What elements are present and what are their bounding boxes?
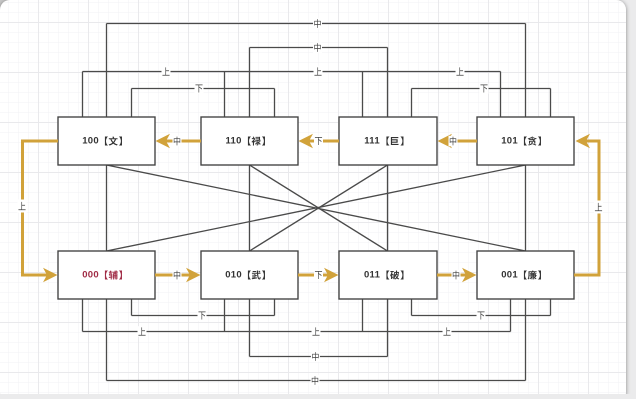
label zhong on bottom outer wire (311, 375, 320, 386)
wire stub top x=362.5 (362, 72, 364, 118)
gold wire left loop 100-to-000 (23, 141, 59, 275)
wire top-right xia horizontal y=88 (412, 88, 551, 90)
wire stub top x=224.5 (224, 72, 226, 118)
label shang on bottom wire (right) (443, 326, 452, 337)
label zhong on gold 011-001 (452, 270, 461, 281)
svg-text:101: 101 (501, 136, 518, 147)
svg-text:011: 011 (364, 270, 381, 281)
svg-text:110: 110 (225, 136, 241, 147)
label shang on top wire (left) (162, 66, 171, 77)
wire bottom inner horizontal (zhong) y=356.2 (250, 356, 388, 358)
wire vertical col3 center x=388 (387, 48, 389, 357)
node 000 辅 box (58, 251, 155, 299)
label zhong on gold 000-010 (173, 270, 182, 281)
label zhong on top outer wire (313, 18, 322, 29)
wire top-left xia horizontal y=88 (132, 88, 275, 90)
node 001 廉 box (477, 251, 574, 299)
wire stub top x=274.5 (274, 89, 276, 118)
gold wire 011-to-001 (437, 274, 467, 277)
wire bottom-left xia horizontal y=315.5 (132, 315, 275, 317)
wire stub top x=411.5 (411, 89, 413, 118)
wire top outer horizontal (zhong) y=23 (107, 23, 526, 25)
wire top shang horizontal y=71.5 (83, 71, 501, 73)
label xia on bottom-right wire (477, 310, 486, 321)
wire stub bottom x=224.5 (224, 299, 226, 332)
gold wire 111-to-110 (308, 140, 339, 143)
wire top inner horizontal (zhong) y=47.4 (250, 47, 388, 49)
wire stub bottom x=131.5 (131, 299, 133, 316)
wire stub top x=500.5 (500, 72, 502, 118)
label shang on top wire (right) (456, 66, 465, 77)
label shang on bottom wire (mid) (312, 326, 321, 337)
gold wire 101-to-111 (446, 140, 477, 143)
wire stub top x=131.5 (131, 89, 133, 118)
wire vertical col4 center x=525.5 (525, 24, 527, 381)
wire bottom shang horizontal y=332 (83, 331, 511, 333)
label zhong on gold 110-100 (173, 136, 182, 147)
wire diagonal 111-to-010 (250, 165, 388, 251)
label xia on top-left wire (195, 83, 204, 94)
wire vertical col2 center x=249.5 (249, 48, 251, 357)
label zhong on bottom inner wire (311, 351, 320, 362)
label shang on bottom wire (left) (138, 326, 147, 337)
wire stub top x=550.5 (550, 89, 552, 118)
gold wire right loop 001-to-101 (574, 141, 599, 275)
node 111 巨 box (339, 117, 437, 165)
wire bottom outer horizontal (zhong) y=381 (107, 380, 526, 382)
label xia on gold 010-011 (314, 270, 323, 281)
node 011 破 box (339, 251, 437, 299)
label zhong on top inner wire (313, 42, 322, 53)
label xia on bottom-left wire (198, 310, 207, 321)
wire stub bottom x=82.5 (82, 299, 84, 332)
svg-text:100: 100 (82, 136, 99, 147)
label zhong on gold 101-111 (449, 136, 458, 147)
wire diagonal 110-to-011 (250, 165, 388, 251)
svg-text:010: 010 (225, 270, 242, 281)
svg-text:001: 001 (501, 270, 518, 281)
gold arrowhead into 000 (43, 268, 58, 282)
wire stub bottom x=411.5 (411, 299, 413, 316)
wire diagonal 101-to-000 (107, 165, 526, 251)
wire stub bottom x=510.5 (510, 299, 512, 332)
wire stub bottom x=550.5 (550, 299, 552, 316)
wire stub bottom x=362.5 (362, 299, 364, 332)
svg-text:000: 000 (82, 270, 99, 281)
wire stub top x=82.5 (82, 72, 84, 118)
label shang on top wire (mid) (314, 66, 323, 77)
label shang on gold left loop (18, 200, 27, 213)
gold wire 010-to-011 (298, 274, 329, 277)
node 010 武 box (201, 251, 298, 299)
node 100 文 box (58, 117, 155, 165)
label xia on top-right wire (480, 83, 489, 94)
node 110 禄 box (201, 117, 298, 165)
gold arrowhead into 101 (576, 134, 591, 148)
node 101 贪 box (477, 117, 574, 165)
wire vertical col1 center x=106.5 (106, 24, 108, 381)
page corner shade top-left (0, 0, 13, 13)
wire bottom-right xia horizontal y=315.5 (412, 315, 551, 317)
wire stub bottom x=274.5 (274, 299, 276, 316)
gold wire 110-to-100 (165, 140, 201, 143)
svg-text:111: 111 (364, 136, 380, 147)
label shang on gold right loop (594, 201, 603, 214)
gold wire 000-to-010 (155, 274, 191, 277)
label xia on gold 111-110 (314, 136, 323, 147)
wire diagonal 100-to-001 (107, 165, 526, 251)
